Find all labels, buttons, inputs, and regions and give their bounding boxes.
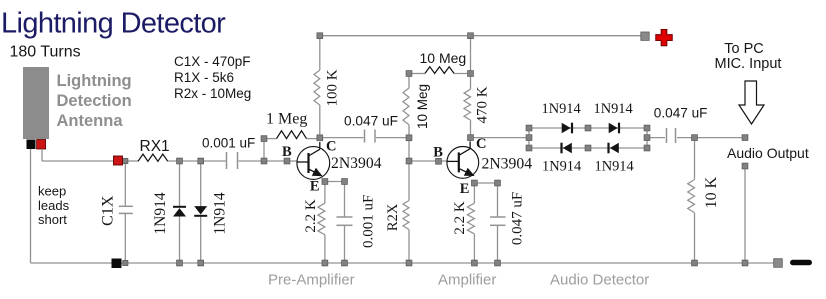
svg-text:C1X: C1X — [100, 195, 117, 226]
diode D1 1N914 (cathode up) — [173, 207, 186, 217]
svg-text:E: E — [460, 181, 470, 197]
resistor 10K zigzag — [688, 180, 695, 213]
wire C4 branch bottom — [344, 225, 346, 263]
svg-text:0.047 uF: 0.047 uF — [510, 192, 526, 245]
wire C6 to output node — [677, 137, 745, 139]
svg-text:2N3904: 2N3904 — [482, 156, 533, 173]
junction base Q1 — [284, 158, 290, 164]
resistor 100K zigzag — [314, 70, 320, 105]
wire antenna hot down — [41, 149, 43, 161]
wire 10Meg-H right stub — [454, 73, 471, 75]
wire Q1 emitter down top — [324, 184, 326, 203]
label 180 Turns — [10, 44, 81, 61]
label RX1 — [140, 138, 170, 155]
capacitor C4 0.001uF Q1 plates — [337, 217, 353, 225]
junction V+ at 100K — [317, 33, 323, 39]
section label Pre-Amplifier — [268, 272, 355, 289]
wire Q1 emitter down bottom — [324, 235, 326, 263]
label R2X — [385, 203, 401, 231]
svg-text:10 Meg: 10 Meg — [420, 50, 467, 66]
section label Amplifier — [438, 272, 496, 289]
junction gnd audio out — [742, 260, 748, 266]
junction D1 top — [177, 158, 183, 164]
svg-text:C: C — [326, 139, 336, 155]
svg-text:RX1: RX1 — [140, 138, 170, 155]
wire D1 branch bottom — [179, 216, 181, 263]
wire D2 branch bottom — [200, 216, 202, 263]
label 0.047 uF preamp — [344, 114, 398, 129]
svg-text:short: short — [38, 212, 67, 227]
ground minus symbol — [790, 260, 812, 265]
wire 470K bottom to collector Q2 — [470, 120, 472, 141]
label 0.047 uF Q2 — [510, 192, 526, 245]
wire bridge right vertical — [646, 128, 648, 148]
capacitor C1X plates — [119, 206, 133, 213]
svg-text:2.2 K: 2.2 K — [303, 199, 319, 233]
svg-text:0.001 uF: 0.001 uF — [202, 136, 255, 151]
svg-text:2N3904: 2N3904 — [331, 155, 382, 172]
diode D4 1N914 top-right (points right) — [609, 123, 619, 134]
wire 10K branch top — [694, 138, 696, 180]
wire bottom ground rail — [31, 262, 779, 264]
svg-text:leads: leads — [38, 198, 70, 213]
wire collector Q1 to C3 — [320, 137, 364, 139]
svg-text:10 Meg: 10 Meg — [415, 84, 430, 129]
wire C1X branch bottom — [124, 213, 126, 263]
svg-text:E: E — [310, 179, 320, 195]
label To PC MIC. Input — [715, 41, 782, 72]
wire 100K bottom to collector Q1 — [319, 105, 321, 141]
wire C1X branch top — [124, 163, 126, 206]
svg-text:100 K: 100 K — [325, 69, 341, 106]
label 0.047 uF output — [654, 106, 708, 121]
junction gnd D2 — [198, 260, 204, 266]
wire base feed vertical mid — [408, 125, 410, 161]
antenna terminal black — [27, 140, 36, 150]
junction base node Q2 left — [406, 158, 412, 164]
svg-text:Amplifier: Amplifier — [438, 272, 496, 289]
junction bridge right bottom — [644, 145, 650, 151]
svg-text:470 K: 470 K — [475, 86, 491, 123]
svg-text:Audio Detector: Audio Detector — [550, 272, 649, 289]
section label Audio Detector — [550, 272, 649, 289]
wire bridge top rail — [529, 127, 647, 129]
wire bridge to C6 — [647, 137, 665, 139]
wire 100K top — [319, 36, 321, 70]
junction base feed C3 — [406, 135, 412, 141]
label Lightning Detection Antenna — [57, 72, 132, 130]
svg-text:R2x - 10Meg: R2x - 10Meg — [174, 86, 251, 101]
svg-text:0.001 uF: 0.001 uF — [361, 195, 377, 248]
wire D2 branch top — [200, 163, 202, 208]
junction 10K top — [692, 135, 698, 141]
svg-text:C: C — [476, 136, 486, 152]
label 2N3904 Q1 — [331, 155, 382, 172]
V+ plus symbol — [656, 30, 672, 46]
junction gnd 2.2K Q1 — [322, 260, 328, 266]
diode D2 1N914 (cathode down) — [194, 206, 207, 216]
junction C4 top — [342, 179, 348, 185]
resistor 2.2K Q2 zigzag — [467, 203, 474, 234]
junction C5 top — [495, 180, 501, 186]
wire D1 branch top — [179, 163, 181, 207]
junction bridge left mid — [526, 135, 532, 141]
junction bridge mid bottom — [585, 145, 591, 151]
svg-text:1N914: 1N914 — [594, 101, 633, 117]
wire collector Q2 to bridge — [471, 137, 530, 139]
junction collector Q2 node — [468, 135, 474, 141]
resistor 470K zigzag — [464, 89, 471, 120]
junction 1Meg left bottom — [261, 158, 267, 164]
junction gnd C1X — [123, 260, 128, 265]
wire audio output vertical — [744, 166, 746, 263]
svg-text:1 Meg: 1 Meg — [266, 111, 307, 128]
wire Q2 emitter down top — [473, 185, 475, 203]
junction audio out below text — [742, 163, 748, 169]
wire C2 to base node Q1 — [239, 160, 298, 162]
wire C3 to base feed node — [376, 137, 409, 139]
junction bridge right top — [644, 125, 650, 131]
junction V+ at 470K — [468, 33, 474, 39]
wire C4 branch top — [344, 182, 346, 218]
pin E Q2 — [460, 181, 470, 197]
wire node A to RX1 — [123, 160, 139, 162]
wire R2X bottom — [408, 230, 410, 264]
junction node A gray — [123, 158, 128, 163]
svg-text:Pre-Amplifier: Pre-Amplifier — [268, 272, 355, 289]
label 1N914 D3 — [542, 101, 581, 117]
wire antenna hot to node A — [42, 160, 114, 162]
wire bridge left vertical — [528, 128, 530, 148]
wire base feed vertical top — [408, 74, 410, 89]
junction bridge left bottom — [526, 145, 532, 151]
svg-text:Lightning Detector: Lightning Detector — [1, 8, 226, 40]
resistor 10Meg vertical zigzag — [403, 88, 409, 125]
svg-text:2.2 K: 2.2 K — [452, 201, 468, 235]
label 0.001 uF series — [202, 136, 255, 151]
wire RX1 to C2 — [168, 160, 226, 162]
wire 1Meg left stub — [264, 138, 277, 140]
label 10 K — [703, 176, 720, 208]
junction audio out top — [742, 135, 748, 141]
label 1N914 D2 — [212, 192, 229, 234]
svg-text:Lightning: Lightning — [57, 72, 132, 90]
junction bridge mid top — [585, 125, 591, 131]
note component values — [174, 54, 251, 101]
svg-text:R1X - 5k6: R1X - 5k6 — [174, 70, 234, 85]
junction emitter Q2 — [472, 180, 478, 186]
wire top V+ rail — [320, 35, 644, 37]
svg-text:Antenna: Antenna — [57, 112, 124, 130]
svg-text:180 Turns: 180 Turns — [10, 44, 81, 61]
title text Lightning Detector — [1, 8, 226, 40]
wire 1Meg right stub — [307, 138, 320, 140]
capacitor C5 0.047uF Q2 plates — [490, 217, 506, 225]
label 1N914 D4 — [594, 101, 633, 117]
resistor R2X zigzag — [403, 201, 409, 230]
label 100 K — [325, 69, 341, 106]
junction base Q2 — [436, 158, 442, 164]
svg-text:MIC. Input: MIC. Input — [715, 56, 782, 72]
arrow to PC input — [739, 81, 764, 124]
label 1N914 D5 — [542, 159, 581, 175]
junction D2 top — [198, 158, 204, 164]
svg-text:keep: keep — [38, 184, 66, 199]
svg-text:C1X - 470pF: C1X - 470pF — [174, 54, 251, 69]
wire R2X top — [408, 161, 410, 201]
transistor Q2 2N3904 — [447, 141, 479, 178]
svg-text:1N914: 1N914 — [542, 101, 581, 117]
junction bridge right mid — [644, 135, 650, 141]
svg-text:Audio Output: Audio Output — [727, 145, 809, 161]
label 2N3904 Q2 — [482, 156, 533, 173]
wire antenna ground down — [30, 149, 32, 263]
svg-text:To PC: To PC — [724, 41, 764, 57]
svg-text:R2X: R2X — [385, 203, 401, 231]
junction gnd R2X — [406, 260, 412, 266]
label 0.001 uF Q1 — [361, 195, 377, 248]
node A red square — [114, 156, 123, 165]
junction 10Meg-H left — [406, 71, 412, 77]
wire Q2 emitter to C5 branch — [474, 182, 497, 184]
resistor 2.2K Q1 zigzag — [318, 203, 325, 235]
svg-text:10 K: 10 K — [703, 176, 720, 208]
label 2.2 K Q1 — [303, 199, 319, 233]
junction bridge left top — [526, 125, 532, 131]
junction gnd 10K — [692, 260, 698, 266]
terminal V+ square — [641, 32, 649, 40]
wire 1Meg left vertical — [263, 139, 265, 161]
junction gnd C4 — [342, 260, 348, 266]
resistor 1Meg zigzag — [277, 131, 307, 139]
junction 1Meg left top — [261, 136, 267, 142]
wire 10Meg-H left stub — [409, 73, 425, 75]
label 470 K — [475, 86, 491, 123]
label 1N914 D1 — [152, 192, 169, 234]
label C1X — [100, 195, 117, 226]
wire Q2 emitter down bottom — [473, 234, 475, 263]
svg-text:1N914: 1N914 — [212, 192, 229, 234]
wire bridge bottom rail — [529, 147, 647, 149]
capacitor C2 0.001uF series plates — [227, 152, 238, 169]
resistor RX1 zigzag — [138, 154, 168, 161]
junction collector Q1 node — [317, 135, 323, 141]
antenna L1 body (180 turns coil) — [23, 67, 49, 139]
wire 10K branch bottom — [694, 213, 696, 263]
wire C5 branch top — [497, 183, 499, 217]
junction gnd C5 — [495, 260, 501, 266]
junction gnd D1 — [177, 260, 183, 266]
svg-text:1N914: 1N914 — [595, 159, 634, 175]
wire 470K top — [470, 36, 472, 89]
label 2.2 K Q2 — [452, 201, 468, 235]
svg-text:B: B — [282, 144, 292, 160]
antenna terminal red — [37, 140, 46, 150]
diode D6 1N914 bottom-right (points left) — [609, 143, 619, 154]
diode D3 1N914 top-left (points right) — [562, 123, 572, 134]
diode D5 1N914 bottom-left (points left) — [562, 143, 572, 154]
label 10 Meg vertical — [415, 84, 430, 129]
wire C5 branch bottom — [497, 225, 499, 263]
capacitor C3 0.047uF plates — [365, 130, 376, 143]
wire base wire Q2 — [409, 160, 448, 162]
pin C Q1 — [326, 139, 336, 155]
svg-text:1N914: 1N914 — [152, 192, 169, 234]
svg-text:0.047 uF: 0.047 uF — [344, 114, 398, 129]
capacitor C6 0.047uF output plates — [667, 128, 676, 143]
label 1N914 D6 — [595, 159, 634, 175]
junction emitter Q1 — [322, 179, 328, 185]
pin B Q2 — [433, 145, 443, 161]
node ground black square — [112, 259, 122, 269]
resistor 10Meg horizontal zigzag — [425, 67, 454, 74]
svg-text:0.047 uF: 0.047 uF — [654, 106, 708, 121]
wire Q1 emitter to C4 branch — [325, 181, 345, 183]
label 1 Meg — [266, 111, 307, 128]
label 10 Meg horizontal — [420, 50, 467, 66]
transistor Q1 2N3904 — [297, 142, 330, 179]
junction gnd 2.2K Q2 — [472, 260, 478, 266]
pin C Q2 — [476, 136, 486, 152]
svg-text:1N914: 1N914 — [542, 159, 581, 175]
terminal ground square — [774, 259, 783, 268]
label Audio Output — [727, 145, 809, 161]
note keep leads short — [38, 184, 70, 228]
pin E Q1 — [310, 179, 320, 195]
junction 10Meg-H right — [468, 71, 474, 77]
svg-text:Detection: Detection — [57, 92, 132, 110]
pin B Q1 — [282, 144, 292, 160]
